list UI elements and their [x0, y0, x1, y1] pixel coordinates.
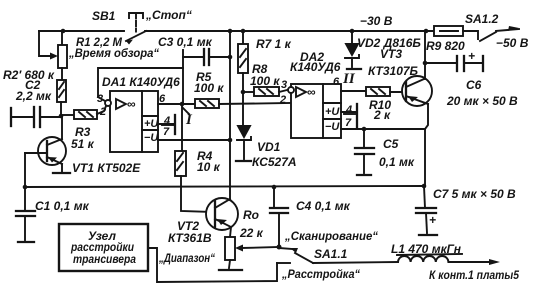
svg-text:R9 820: R9 820: [426, 39, 465, 53]
svg-text:КТ361В: КТ361В: [168, 231, 212, 245]
svg-text:К конт.1 платы5: К конт.1 платы5: [429, 268, 519, 282]
node R7 top: [241, 29, 246, 34]
svg-text:II: II: [342, 71, 356, 87]
svg-text:К140УД6: К140УД6: [290, 60, 341, 74]
capacitor C1: [16, 187, 35, 242]
resistor R10: [341, 87, 405, 96]
node C3 line top: [228, 29, 233, 34]
op-amp DA1: [98, 91, 159, 152]
node -U: [228, 138, 233, 143]
transistor VT1: [25, 117, 70, 187]
svg-text:С6: С6: [466, 78, 482, 92]
svg-text:SA1.2: SA1.2: [465, 12, 499, 26]
svg-text:+U: +U: [325, 106, 340, 118]
node VD2 top: [350, 29, 355, 34]
svg-text:2: 2: [99, 106, 106, 118]
svg-text:−U: −U: [144, 132, 159, 144]
svg-text:С5: С5: [383, 137, 399, 151]
wire box to rasstroika contact: [148, 248, 277, 282]
svg-text:∞: ∞: [127, 97, 136, 111]
potentiometer R1: [39, 31, 67, 68]
wire DA1 feedback frame: [98, 68, 183, 104]
svg-text:3: 3: [281, 79, 287, 91]
svg-text:6: 6: [333, 76, 340, 88]
svg-text:0,1 мк: 0,1 мк: [379, 155, 415, 169]
svg-text:−30 В: −30 В: [360, 14, 393, 28]
wire DA2 -U: [341, 128, 425, 130]
inductor L1: [397, 254, 500, 265]
resistor R7: [238, 31, 248, 92]
switch SB1 button: [126, 13, 146, 45]
node C3 right: [228, 55, 233, 60]
node C1: [23, 185, 28, 190]
box detuning unit: [59, 224, 148, 271]
svg-text:20 мк × 50 В: 20 мк × 50 В: [446, 94, 518, 108]
svg-text:Rо: Rо: [243, 208, 259, 222]
pins 4 7 DA2: [341, 104, 357, 129]
wire C3-VT2 vertical line: [229, 31, 231, 199]
svg-text:VT3: VT3: [380, 47, 402, 61]
zener VD2: [345, 31, 361, 69]
wire top rail right segment: [145, 30, 434, 32]
switch SA1.1: [277, 248, 313, 263]
zener VD1: [236, 92, 251, 161]
capacitor C3: [183, 49, 230, 68]
svg-text:КС527А: КС527А: [252, 155, 297, 169]
svg-text:SB1: SB1: [92, 9, 116, 23]
svg-text:трансивера: трансивера: [73, 252, 136, 266]
svg-text:„Стоп“: „Стоп“: [145, 8, 192, 22]
svg-text:∞: ∞: [307, 85, 316, 99]
svg-text:С1 0,1 мк: С1 0,1 мк: [35, 199, 90, 213]
resistor R9: [434, 26, 478, 39]
svg-text:SA1.1: SA1.1: [314, 247, 348, 261]
resistor R3: [61, 106, 106, 119]
node ground rail C4: [272, 185, 277, 190]
svg-text:2 к: 2 к: [373, 108, 391, 122]
svg-text:КТ3107Б: КТ3107Б: [368, 64, 419, 78]
svg-text:7: 7: [345, 117, 352, 129]
svg-text:7: 7: [163, 126, 170, 138]
svg-text:L1 470 мкГн: L1 470 мкГн: [391, 242, 462, 256]
switch SA1.2: [480, 26, 519, 41]
svg-text:„Диапазон“: „Диапазон“: [158, 251, 215, 265]
wire DA1 -U to rail line: [158, 139, 230, 141]
potentiometer Ro: [219, 237, 279, 270]
node C5 top: [362, 127, 367, 132]
node R7 bottom: [241, 90, 246, 95]
svg-text:+: +: [468, 49, 475, 63]
svg-text:„Сканирование“: „Сканирование“: [284, 229, 378, 243]
transistor VT3: [402, 31, 432, 186]
resistor R8: [243, 87, 289, 96]
node SA1.1 junction: [277, 245, 282, 250]
svg-text:„Время обзора“: „Время обзора“: [68, 46, 159, 60]
test point I: [183, 108, 193, 128]
op-amp DA2: [288, 84, 341, 138]
svg-text:2: 2: [279, 94, 286, 106]
svg-text:I: I: [185, 112, 193, 128]
capacitor C6: [423, 49, 483, 71]
svg-text:−U: −U: [325, 121, 340, 133]
svg-text:+: +: [429, 213, 436, 227]
capacitor C2: [11, 107, 61, 127]
transistor VT2: [206, 198, 238, 237]
svg-text:2,2 мк: 2,2 мк: [15, 89, 52, 103]
svg-text:VT1 КТ502Е: VT1 КТ502Е: [72, 161, 141, 175]
svg-text:3: 3: [97, 93, 103, 105]
svg-text:10 к: 10 к: [197, 160, 221, 174]
svg-text:100 к: 100 к: [250, 74, 280, 88]
pins 4 7 DA1: [158, 115, 175, 138]
resistor R4: [175, 104, 213, 212]
svg-text:VD1: VD1: [257, 140, 281, 154]
svg-text:„Расстройка“: „Расстройка“: [281, 267, 360, 281]
wire SA1.1 common to L1: [313, 262, 398, 263]
svg-text:С3 0,1 мк: С3 0,1 мк: [158, 35, 213, 49]
capacitor C4: [270, 187, 288, 247]
wire ground rail: [25, 186, 424, 187]
svg-text:−50 В: −50 В: [496, 36, 529, 50]
svg-text:51 к: 51 к: [71, 137, 95, 151]
wire top -30V rail left segment: [39, 30, 124, 32]
svg-text:С4 0,1 мк: С4 0,1 мк: [296, 199, 351, 213]
resistor R5: [195, 99, 291, 108]
node C7: [422, 184, 427, 189]
node VT3 collector rail: [424, 29, 429, 34]
capacitor C5: [355, 129, 374, 175]
svg-text:100 к: 100 к: [194, 81, 224, 95]
node DA1 out: [180, 102, 185, 107]
wire DA1 output: [158, 103, 195, 105]
resistor R2: [57, 68, 66, 116]
svg-text:22 к: 22 к: [239, 226, 264, 240]
node base VT1 / R3: [59, 114, 64, 119]
svg-text:С7 5 мк × 50 В: С7 5 мк × 50 В: [433, 187, 516, 201]
node R1 top: [61, 29, 66, 34]
svg-text:DA1 К140УД6: DA1 К140УД6: [102, 75, 180, 89]
capacitor C7: [416, 186, 437, 235]
svg-text:R7 1 к: R7 1 к: [256, 37, 292, 51]
